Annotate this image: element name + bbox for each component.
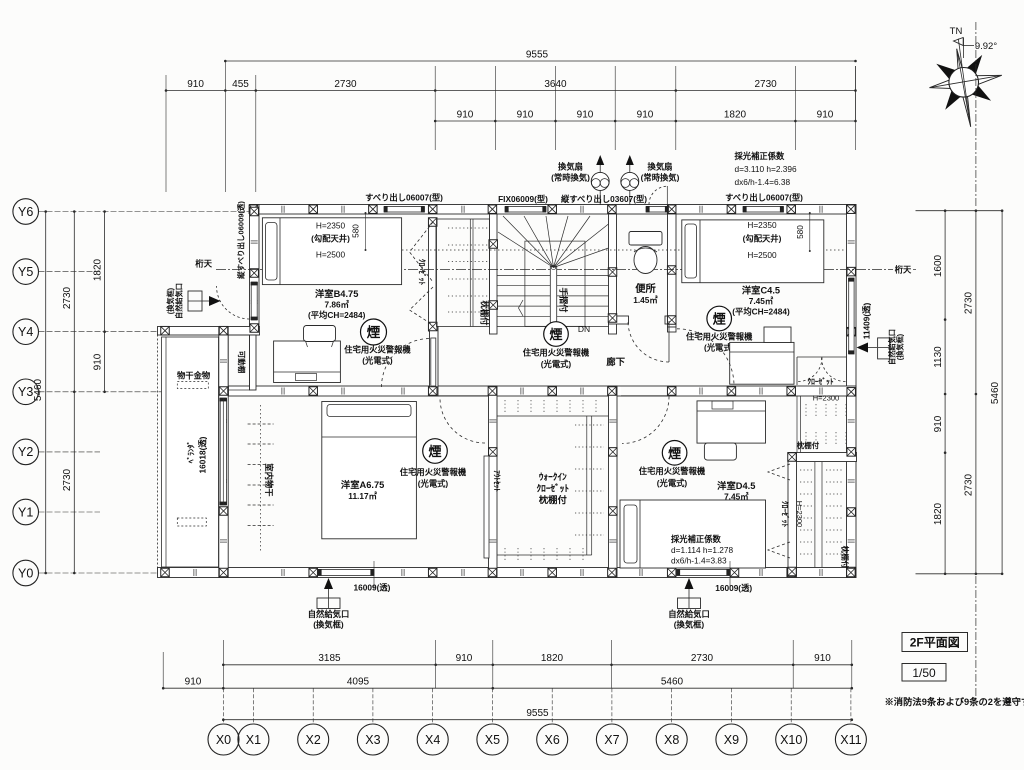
wall WIC west (X5) — [489, 386, 498, 578]
indoor laundry pole — [248, 405, 275, 552]
svg-text:910: 910 — [637, 110, 654, 121]
svg-text:H=2300: H=2300 — [813, 394, 839, 403]
closet D upper — [797, 394, 846, 453]
bed room D — [620, 500, 766, 568]
svg-text:7.45㎡: 7.45㎡ — [749, 296, 774, 306]
svg-text:2730: 2730 — [62, 286, 73, 309]
wall posts Y3 wall — [309, 387, 796, 396]
top dimension extension lines — [166, 61, 856, 192]
svg-text:(光電式): (光電式) — [362, 356, 393, 366]
svg-text:Y1: Y1 — [18, 505, 33, 519]
window tate-suberidashi 03607 toilet (top wall) — [646, 206, 669, 212]
svg-text:9.92°: 9.92° — [975, 41, 997, 52]
wall posts left wall — [250, 207, 259, 332]
svg-text:5460: 5460 — [990, 381, 1001, 404]
svg-text:dx6/h-1.4=3.83: dx6/h-1.4=3.83 — [671, 556, 727, 566]
svg-text:dx6/h-1.4=6.38: dx6/h-1.4=6.38 — [735, 177, 791, 187]
svg-text:H=2500: H=2500 — [316, 250, 346, 260]
svg-text:X7: X7 — [604, 733, 619, 747]
right dimension chain 2730/2730 — [964, 209, 978, 575]
svg-text:物干金物: 物干金物 — [177, 371, 211, 381]
svg-text:Y0: Y0 — [18, 566, 33, 580]
bottom vent natural air inlet D — [668, 578, 710, 630]
smoke detector room B — [344, 319, 411, 366]
grid bubbles X0-X11 — [208, 724, 239, 755]
svg-text:ｸﾛｰｾﾞｯﾄ: ｸﾛｰｾﾞｯﾄ — [537, 483, 570, 494]
smoke detector room A — [400, 439, 467, 489]
svg-text:X6: X6 — [545, 733, 560, 747]
svg-text:16009(透): 16009(透) — [715, 583, 752, 593]
dimension chain 9555 (bottom tier 3) — [222, 708, 853, 721]
svg-text:910: 910 — [187, 79, 204, 90]
wall half-post ticks — [194, 206, 855, 576]
ventilation fan right — [621, 155, 680, 205]
svg-text:桁天: 桁天 — [895, 265, 912, 275]
wall D-closet divider (Y2) — [788, 453, 857, 462]
smoke detector room D — [639, 441, 706, 489]
svg-text:住宅用火災警報機: 住宅用火災警報機 — [400, 467, 467, 477]
svg-text:(常時換気): (常時換気) — [551, 173, 590, 183]
svg-text:580: 580 — [795, 225, 805, 239]
exterior wall left — [250, 205, 260, 336]
svg-text:H=2350: H=2350 — [316, 221, 346, 231]
dimension chain 9555 (top tier 1) — [224, 50, 857, 63]
svg-text:7.45㎡: 7.45㎡ — [724, 492, 749, 502]
svg-text:Y5: Y5 — [18, 265, 33, 279]
svg-text:X3: X3 — [365, 733, 380, 747]
left grid extension lines — [39, 212, 251, 574]
svg-text:自然給気口: 自然給気口 — [668, 609, 710, 619]
svg-text:910: 910 — [457, 110, 474, 121]
left wall vent natural air inlet — [166, 283, 221, 319]
closet room C — [797, 357, 847, 386]
svg-text:2730: 2730 — [964, 291, 975, 314]
svg-text:枕棚付: 枕棚付 — [797, 440, 820, 450]
desk and chair room D — [697, 401, 766, 460]
wall kado-dana closet east — [250, 335, 257, 390]
closet D folding door chevrons — [768, 464, 790, 558]
door swing arc room C — [677, 329, 734, 386]
ceiling height labels room B — [311, 221, 350, 260]
ceiling boundary dotted line — [262, 249, 845, 251]
svg-text:(平均CH=2484): (平均CH=2484) — [308, 310, 366, 320]
svg-text:X11: X11 — [840, 733, 861, 747]
room label yoshitsu D4.5 — [717, 480, 755, 502]
svg-text:(光電式): (光電式) — [541, 359, 572, 369]
outset sliding door WIC — [484, 456, 501, 558]
svg-text:FIX06009(型): FIX06009(型) — [498, 194, 548, 204]
wall posts balcony top wall — [161, 326, 228, 335]
svg-text:2730: 2730 — [964, 473, 975, 496]
svg-text:(平均CH=2484): (平均CH=2484) — [732, 307, 790, 317]
svg-text:(換気框): (換気框) — [313, 620, 344, 630]
wall posts interior — [219, 218, 796, 576]
svg-text:910: 910 — [817, 110, 834, 121]
svg-text:(光電式): (光電式) — [657, 478, 688, 488]
right wall vent — [857, 329, 905, 365]
svg-text:TN: TN — [950, 26, 963, 37]
svg-text:ｸﾛｰｾﾞｯﾄ: ｸﾛｰｾﾞｯﾄ — [418, 259, 428, 285]
walk-in closet interior — [497, 400, 609, 562]
north arrow compass rose — [930, 22, 1002, 127]
svg-text:自然給気口: 自然給気口 — [175, 283, 184, 319]
svg-text:d=3.110 h=2.396: d=3.110 h=2.396 — [735, 164, 798, 174]
left dimension chain 5460 — [33, 210, 47, 574]
wall toilet east (X8) — [668, 214, 677, 327]
left dimension chain 2730/2730 — [62, 210, 76, 574]
desk and chair room C — [730, 327, 794, 384]
bed room B — [262, 218, 401, 285]
svg-text:ｱｳﾄｾｯﾄ: ｱｳﾄｾｯﾄ — [492, 470, 501, 492]
wall room C west lower stub (X8) — [668, 327, 677, 332]
svg-text:910: 910 — [577, 110, 594, 121]
bottom dimension extension lines — [163, 640, 852, 724]
svg-text:(光電式): (光電式) — [418, 479, 449, 489]
svg-text:採光補正係数: 採光補正係数 — [671, 534, 721, 544]
closet room B — [437, 219, 490, 327]
dimension chain 910/4095/5460 (bottom tier 2) — [162, 677, 853, 690]
svg-text:1.45㎡: 1.45㎡ — [633, 295, 658, 305]
svg-text:Y2: Y2 — [18, 445, 33, 459]
ventilation fan left — [551, 155, 609, 205]
svg-text:Y3: Y3 — [18, 385, 33, 399]
window 16009 room A (bottom wall) — [318, 569, 374, 576]
svg-text:X10: X10 — [780, 733, 802, 747]
window swing arc left wall window — [217, 286, 250, 319]
bed room C — [682, 220, 824, 283]
svg-text:採光補正係数: 採光補正係数 — [735, 151, 785, 161]
svg-text:X8: X8 — [664, 733, 679, 747]
dimension chain 910/455/2730/3640/2730 (top tier 2) — [165, 79, 857, 92]
svg-text:X4: X4 — [425, 733, 440, 747]
dimension 580 room C — [795, 212, 811, 252]
toilet door arc — [628, 321, 669, 362]
svg-text:2730: 2730 — [754, 79, 777, 90]
window 11409 room C (right wall) — [848, 278, 854, 354]
svg-text:1820: 1820 — [724, 110, 747, 121]
balcony labels veranda 16018 — [186, 436, 208, 473]
svg-text:1820: 1820 — [933, 502, 944, 525]
room label yoshitsu B4.75 — [308, 288, 366, 320]
svg-text:H=2300: H=2300 — [795, 501, 804, 527]
svg-text:(常時換気): (常時換気) — [641, 173, 680, 183]
svg-text:d=1.114 h=1.278: d=1.114 h=1.278 — [671, 545, 734, 555]
svg-text:9555: 9555 — [526, 708, 549, 719]
svg-text:(換気框): (換気框) — [674, 620, 705, 630]
room label yoshitsu A6.75 — [341, 479, 384, 501]
svg-text:2730: 2730 — [334, 79, 357, 90]
svg-text:廊下: 廊下 — [606, 356, 625, 367]
svg-text:X9: X9 — [724, 733, 739, 747]
svg-text:枕棚付: 枕棚付 — [841, 546, 851, 569]
dimension chain 3185/910/1820/2730/910 (bottom tier 1) — [222, 653, 853, 666]
svg-text:1/50: 1/50 — [912, 666, 936, 680]
svg-text:洋室A6.75: 洋室A6.75 — [341, 479, 384, 490]
svg-text:9555: 9555 — [526, 50, 549, 61]
window FIX06009 stairwell (top wall) — [505, 206, 546, 212]
svg-text:(勾配天井): (勾配天井) — [743, 234, 782, 244]
smoke detector room C — [686, 306, 753, 352]
svg-text:すべり出し06007(型): すべり出し06007(型) — [725, 193, 803, 203]
svg-text:(勾配天井): (勾配天井) — [311, 234, 350, 244]
wall posts bottom wall — [161, 568, 855, 577]
svg-text:2730: 2730 — [691, 653, 714, 664]
svg-text:X5: X5 — [485, 733, 500, 747]
wall toilet south (Y4 level) — [609, 316, 677, 324]
door opening room D in Y3 wall — [621, 387, 667, 395]
grid bubbles Y0-Y6 — [13, 560, 39, 586]
svg-text:自然給気口: 自然給気口 — [308, 609, 350, 619]
svg-text:※消防法9条および9条の2を遵守する: ※消防法9条および9条の2を遵守する — [885, 696, 1024, 707]
svg-text:910: 910 — [456, 653, 473, 664]
dimension chain 910x4/1820/910 (top tier 3) — [434, 110, 857, 123]
daylight factor label top — [735, 151, 798, 187]
svg-text:手摺付: 手摺付 — [559, 288, 569, 314]
daylight factor label room D — [671, 534, 734, 566]
title box 2F floor plan — [902, 633, 968, 652]
wall closet B west (X4-40) — [429, 218, 437, 331]
svg-text:ﾍﾞﾗﾝﾀﾞ: ﾍﾞﾗﾝﾀﾞ — [186, 441, 196, 465]
closet D labels — [780, 501, 804, 528]
svg-text:580: 580 — [351, 224, 361, 238]
wall stair west upper (X5) — [490, 214, 498, 334]
svg-text:3185: 3185 — [318, 653, 341, 664]
svg-text:910: 910 — [517, 110, 534, 121]
svg-text:可動棚: 可動棚 — [237, 351, 247, 374]
svg-text:7.86㎡: 7.86㎡ — [324, 300, 349, 310]
svg-text:X2: X2 — [306, 733, 321, 747]
wall posts right wall — [847, 267, 856, 575]
door opening room A in Y3 wall — [439, 387, 489, 395]
svg-text:2F平面図: 2F平面図 — [910, 636, 960, 650]
svg-text:洋室B4.75: 洋室B4.75 — [315, 288, 358, 299]
svg-text:910: 910 — [933, 415, 944, 432]
svg-text:H=2350: H=2350 — [747, 220, 777, 230]
svg-text:16018(透): 16018(透) — [198, 436, 208, 473]
closet D lower — [800, 462, 851, 569]
svg-text:ｸﾛｰｾﾞｯﾄ: ｸﾛｰｾﾞｯﾄ — [807, 376, 833, 386]
dimension 580 room B — [351, 212, 367, 251]
right vertical datum dash-dot line — [975, 100, 977, 700]
svg-text:煙: 煙 — [367, 324, 381, 340]
svg-text:洋室C4.5: 洋室C4.5 — [742, 285, 780, 296]
wall room-A west (X0) — [219, 327, 228, 578]
svg-text:1820: 1820 — [541, 653, 564, 664]
svg-text:910: 910 — [814, 653, 831, 664]
balcony outline — [158, 335, 219, 571]
balcony sliding door 16018 (X0 wall) — [220, 398, 227, 505]
svg-text:枕棚付: 枕棚付 — [539, 494, 568, 505]
svg-text:4095: 4095 — [347, 677, 370, 688]
scale box 1/50 — [902, 664, 946, 682]
svg-text:換気扇: 換気扇 — [558, 162, 583, 172]
door swing arc room A — [440, 398, 485, 443]
svg-text:住宅用火災警報機: 住宅用火災警報機 — [686, 332, 753, 342]
door swing arc room D — [622, 397, 669, 444]
svg-text:住宅用火災警報機: 住宅用火災警報機 — [344, 345, 411, 355]
exterior wall right — [847, 205, 857, 578]
svg-text:桁天: 桁天 — [195, 259, 212, 269]
svg-text:2730: 2730 — [62, 468, 73, 491]
ceiling height labels room C — [743, 220, 782, 260]
svg-text:11.17㎡: 11.17㎡ — [348, 491, 377, 501]
wall WIC east (X7) — [609, 386, 618, 578]
svg-text:洋室D4.5: 洋室D4.5 — [717, 480, 755, 491]
room label yoshitsu C4.5 — [732, 285, 790, 317]
toilet room label benjo — [633, 282, 658, 305]
bottom vent natural air inlet A — [308, 578, 350, 630]
closet B folding door chevrons — [410, 222, 434, 325]
wall room B door post (X4) — [430, 327, 439, 397]
left dimension chain 1820/910 — [93, 210, 106, 393]
window suberidashi 06007 room B (top wall) — [384, 206, 425, 212]
svg-text:すべり出し06007(型): すべり出し06007(型) — [365, 193, 443, 203]
window 16009 room D (bottom wall) — [677, 569, 731, 576]
svg-text:住宅用火災警報機: 住宅用火災警報機 — [523, 348, 590, 358]
svg-text:Y4: Y4 — [18, 325, 33, 339]
svg-text:縦すべり出し03607(型): 縦すべり出し03607(型) — [561, 194, 647, 204]
right dimension chain 1600/1130/910/1820 — [933, 209, 946, 575]
desk and chair room B — [274, 326, 341, 383]
wall mid horizontal (Y3) — [229, 386, 857, 396]
keta-ten dash-dot datum line — [195, 259, 916, 275]
svg-text:便所: 便所 — [635, 282, 656, 295]
svg-text:455: 455 — [232, 79, 249, 90]
exterior wall balcony-top (Y4) — [158, 327, 260, 336]
wall D-closet west (X10) — [788, 453, 797, 578]
wall stair east upper (X7) — [609, 214, 617, 334]
movable shelf closet kado-dana — [228, 335, 249, 390]
window swing arc toilet window — [649, 186, 667, 205]
window suberidashi 06007 room C (top wall) — [743, 206, 784, 212]
wall posts top wall — [249, 205, 855, 214]
svg-text:室内物干: 室内物干 — [264, 463, 274, 497]
right dimension boundary lines — [916, 211, 1003, 574]
svg-text:ｸﾛｰｾﾞｯﾄ: ｸﾛｰｾﾞｯﾄ — [780, 501, 790, 527]
svg-text:H=2500: H=2500 — [747, 250, 777, 260]
svg-text:(換気框): (換気框) — [896, 333, 905, 360]
svg-text:DN: DN — [578, 324, 590, 334]
bed room A — [322, 402, 417, 539]
right dimension chain 5460 — [990, 209, 1003, 575]
svg-text:煙: 煙 — [549, 327, 562, 342]
svg-text:1820: 1820 — [93, 258, 104, 281]
door swing arc room B — [382, 339, 431, 388]
exterior wall top — [250, 205, 856, 215]
smoke detector stairwell — [523, 322, 590, 369]
svg-text:縦すべり出し06009(透): 縦すべり出し06009(透) — [236, 201, 246, 279]
window tate-suberidashi 06009 (left wall) — [251, 282, 258, 320]
door leaf room B in X4 wall — [431, 338, 436, 386]
svg-text:換気扇: 換気扇 — [648, 162, 673, 172]
svg-text:煙: 煙 — [713, 312, 726, 327]
svg-text:煙: 煙 — [668, 446, 681, 461]
balcony hanger fitting label — [177, 371, 211, 389]
toilet fixture — [629, 232, 662, 274]
svg-text:ｳｫｰｸｲﾝ: ｳｫｰｸｲﾝ — [539, 472, 567, 482]
svg-text:住宅用火災警報機: 住宅用火災警報機 — [639, 466, 706, 476]
svg-text:5460: 5460 — [661, 677, 684, 688]
svg-text:Y6: Y6 — [18, 205, 33, 219]
svg-text:910: 910 — [185, 677, 202, 688]
balcony dashed box — [177, 518, 206, 526]
WIC labels — [537, 472, 570, 505]
svg-text:910: 910 — [93, 353, 104, 370]
svg-text:11409(透): 11409(透) — [862, 303, 872, 340]
svg-text:X1: X1 — [246, 733, 261, 747]
stairwell treads and fan — [497, 216, 609, 334]
svg-text:1130: 1130 — [933, 346, 944, 368]
svg-text:枕棚付: 枕棚付 — [480, 301, 490, 327]
svg-text:1600: 1600 — [933, 254, 944, 277]
svg-text:煙: 煙 — [428, 444, 441, 459]
exterior wall bottom — [158, 568, 857, 578]
svg-text:X0: X0 — [216, 733, 231, 747]
svg-text:16009(透): 16009(透) — [354, 583, 391, 593]
